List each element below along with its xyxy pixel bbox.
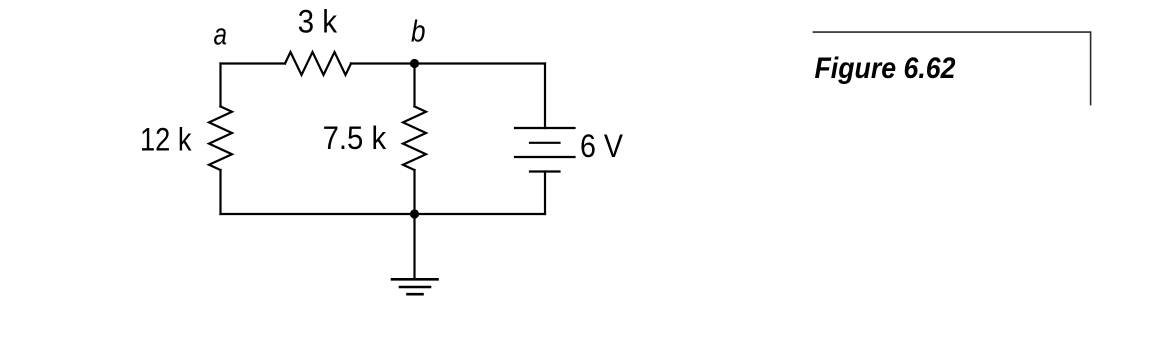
- junction dot (bottom, ground node): [410, 209, 419, 218]
- svg-text:Figure 6.62: Figure 6.62: [815, 52, 956, 85]
- wire left rail upper (node a down to 12k): [219, 64, 221, 107]
- wire top-right (3k resistor to battery branch): [351, 62, 545, 64]
- resistor 7.5 k (vertical zigzag, middle branch): [403, 107, 426, 171]
- svg-text:a: a: [214, 17, 228, 52]
- wire ground stem: [413, 214, 415, 279]
- svg-text:3 k: 3 k: [298, 4, 338, 40]
- wire battery bottom lead: [544, 172, 546, 215]
- wire bottom (left rail to battery): [221, 213, 546, 215]
- wire middle rail upper (node b down to 7.5k): [413, 64, 415, 107]
- svg-text:6 V: 6 V: [580, 128, 624, 164]
- wire top-left (node a to 3k resistor): [221, 62, 286, 64]
- svg-text:7.5 k: 7.5 k: [323, 120, 387, 156]
- node b junction dot (top): [410, 59, 419, 68]
- wire left rail lower (12k down to bottom wire): [219, 170, 221, 214]
- svg-text:b: b: [411, 14, 426, 49]
- resistor 3 k (horizontal zigzag between a and b): [285, 52, 351, 75]
- wire battery top lead: [544, 64, 546, 129]
- ground symbol: [392, 279, 438, 294]
- svg-text:12 k: 12 k: [140, 122, 192, 158]
- wire middle rail lower (7.5k down to bottom junction): [413, 170, 415, 214]
- resistor 12 k (vertical zigzag, left branch): [209, 107, 232, 171]
- battery V1 6 V (plates: long-short-long-short): [515, 128, 575, 172]
